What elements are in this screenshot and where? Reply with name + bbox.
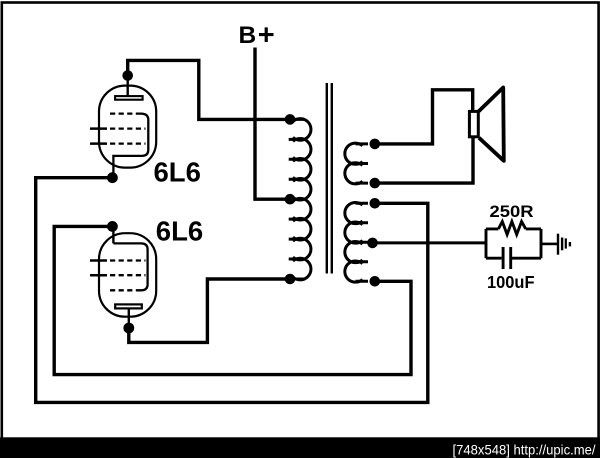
svg-text:+: + xyxy=(258,19,275,51)
wire V1 plate to primary top terminal xyxy=(128,60,288,119)
junction dot V2 cathode xyxy=(107,221,118,232)
ground symbol xyxy=(558,234,570,255)
wire B+ supply to transformer primary center tap xyxy=(255,48,288,200)
tube V1 grid dashes xyxy=(110,114,146,144)
wire secondary terminal to speaker bottom xyxy=(375,138,474,183)
wire secondary center tap to RC network xyxy=(372,241,486,244)
transformer T1 primary winding xyxy=(289,119,311,280)
wire V1 cathode to secondary lower-section top terminal xyxy=(36,178,428,403)
tube V2 plate bar xyxy=(115,304,142,308)
junction dot primary bottom xyxy=(285,274,296,285)
tube V1 beam plate / cathode xyxy=(113,114,148,178)
junction dot V1 plate xyxy=(122,70,133,81)
tube V1 grid stubs xyxy=(90,129,107,144)
junction dot secondary top terminal xyxy=(370,139,381,150)
transformer core xyxy=(327,83,332,274)
tube V2 cathode lead xyxy=(112,226,114,243)
svg-text:250R: 250R xyxy=(490,203,534,221)
svg-text:B: B xyxy=(239,22,257,49)
transformer secondary winding bottom section xyxy=(345,202,368,282)
junction dot V2 plate xyxy=(123,323,134,334)
junction dot primary top xyxy=(285,114,296,125)
svg-text:6L6: 6L6 xyxy=(154,156,201,187)
junction dot secondary second terminal xyxy=(370,178,381,189)
resistor 250R body and RC loop frame xyxy=(486,222,541,259)
tube V2 beam plate / cathode xyxy=(113,243,147,290)
tube V1 plate bar xyxy=(115,96,143,100)
svg-text:100uF: 100uF xyxy=(487,272,535,292)
svg-text:[748x548] http://upic.me/: [748x548] http://upic.me/ xyxy=(453,441,596,457)
capacitor 100uF plates xyxy=(486,247,541,269)
tube V2 plate lead xyxy=(128,308,130,328)
svg-text:6L6: 6L6 xyxy=(156,216,203,247)
junction dot secondary lower-top terminal xyxy=(370,198,381,209)
junction dot secondary center tap xyxy=(367,238,378,249)
junction dot secondary bottom terminal xyxy=(370,276,381,287)
speaker LS1 driver frame xyxy=(469,111,478,136)
tube V1 (6L6) envelope xyxy=(99,86,156,168)
wire secondary top terminal to speaker top xyxy=(375,90,473,144)
tube V2 (6L6) envelope xyxy=(99,233,156,317)
junction dot primary center tap xyxy=(285,194,296,205)
tube V2 grid dashes xyxy=(110,261,146,291)
junction dot V1 cathode xyxy=(107,172,118,183)
tube V2 grid stubs xyxy=(90,261,107,276)
wire RC network to ground xyxy=(541,243,557,246)
wire V2 cathode to secondary lower-section bottom terminal xyxy=(54,226,411,374)
speaker LS1 horn cone xyxy=(479,88,504,161)
transformer secondary winding top section xyxy=(345,143,368,184)
wire V2 plate to primary bottom terminal xyxy=(129,279,288,342)
tube V1 plate lead xyxy=(126,76,128,97)
